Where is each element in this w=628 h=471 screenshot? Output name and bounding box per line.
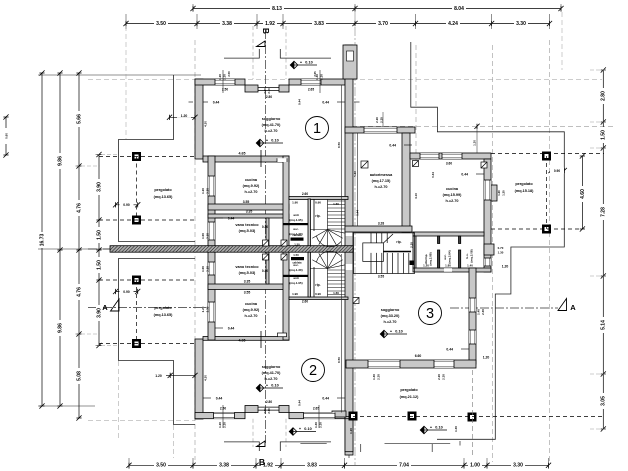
svg-text:0.44: 0.44	[228, 327, 235, 331]
svg-text:3.50: 3.50	[156, 463, 166, 469]
svg-text:1.00: 1.00	[201, 266, 205, 272]
svg-text:1.00: 1.00	[470, 463, 480, 469]
window: unit1 top w1	[215, 79, 235, 85]
grid vertical x549.6	[549, 40, 551, 462]
opening: cucina1 door	[277, 158, 287, 162]
wall: unit1 left outer	[195, 79, 203, 159]
pillar mark autorimessa	[361, 161, 368, 168]
svg-text:0.44: 0.44	[461, 173, 468, 177]
svg-text:3.28: 3.28	[378, 222, 384, 226]
svg-text:2.60: 2.60	[302, 300, 308, 304]
svg-text:1.20: 1.20	[497, 190, 501, 196]
svg-text:(mq.13.65): (mq.13.65)	[154, 195, 174, 199]
svg-text:8.13: 8.13	[272, 6, 282, 12]
svg-text:h.=2.70: h.=2.70	[265, 129, 278, 133]
pillar marks vano2	[263, 254, 269, 260]
window: soggiorno3 right w2	[469, 330, 476, 344]
svg-text:1.20: 1.20	[502, 265, 509, 269]
svg-text:3.55: 3.55	[243, 200, 250, 204]
extension lines top ticks	[192, 4, 194, 12]
svg-text:w.c.: w.c.	[443, 254, 447, 261]
door threshold unit2 bottom	[258, 406, 279, 408]
wall: vano1 partition x266	[266, 218, 269, 252]
section marker B bottom	[257, 441, 266, 447]
svg-text:3.35: 3.35	[244, 280, 251, 284]
window: cucina2 left	[208, 302, 215, 322]
svg-text:1.60: 1.60	[333, 202, 339, 206]
small dim 0.44 bottom-right	[337, 397, 345, 399]
wall: autorimessa top	[345, 127, 415, 133]
svg-text:0.10: 0.10	[271, 384, 278, 388]
wall: stair top upper	[289, 197, 348, 200]
centre spine dash-dot y250	[88, 248, 211, 250]
svg-text:0.44: 0.44	[298, 400, 302, 406]
rip closet wall upper	[313, 199, 315, 231]
svg-text:0.44: 0.44	[216, 397, 223, 401]
svg-text:0.30: 0.30	[262, 269, 268, 273]
svg-text:(mq.1.95): (mq.1.95)	[289, 281, 302, 285]
rotated dim 1.20 cucina3	[476, 126, 478, 153]
dim row top 2	[126, 23, 550, 25]
canopy outline top-left	[119, 75, 196, 242]
wall: bath partition 2	[459, 236, 461, 244]
svg-text:1.50: 1.50	[96, 260, 102, 270]
svg-text:1.92: 1.92	[265, 21, 275, 27]
svg-text:(mq.2.99): (mq.2.99)	[429, 252, 433, 265]
recess edge dashed x253 top	[252, 26, 254, 79]
dim col right pergola 4.60	[581, 156, 583, 229]
svg-text:B: B	[259, 457, 265, 467]
svg-text:(mq.9.92): (mq.9.92)	[243, 184, 260, 188]
svg-text:w.c.: w.c.	[292, 227, 299, 231]
svg-text:cucina: cucina	[245, 302, 258, 306]
wall: anti partition upper	[283, 223, 309, 225]
wall: unit1 top band left	[195, 79, 245, 85]
svg-text:h.=2.70: h.=2.70	[446, 199, 459, 203]
rotated dim garage door	[382, 112, 384, 127]
wall stub bottom left of pergolato21	[332, 411, 346, 417]
svg-text:h.=2.70: h.=2.70	[384, 320, 397, 324]
small dim 0.44 vano1	[215, 217, 223, 219]
dim col left 3.90	[98, 155, 100, 346]
svg-text:5.38: 5.38	[353, 171, 357, 177]
wall: cucina1 bottom	[208, 204, 289, 210]
svg-text:0.44: 0.44	[213, 101, 220, 105]
svg-text:rip.: rip.	[396, 240, 401, 244]
svg-text:4.30: 4.30	[204, 375, 208, 381]
svg-text:1.90: 1.90	[292, 201, 298, 205]
svg-text:5.08: 5.08	[76, 371, 82, 381]
small dim 0.44 top-right	[337, 101, 345, 103]
dim col right main	[602, 70, 604, 429]
wall: soggiorno3 bottom	[346, 360, 476, 368]
svg-text:caldaia: caldaia	[292, 233, 302, 237]
svg-text:2.10: 2.10	[206, 266, 210, 272]
wall: unit1 top band right	[289, 79, 345, 85]
window: unit2 bottom w1	[214, 413, 235, 419]
svg-text:(mq.3.08): (mq.3.08)	[470, 249, 474, 262]
svg-text:(mq.15.18): (mq.15.18)	[515, 189, 535, 193]
svg-text:3.05: 3.05	[601, 396, 607, 406]
small dim 1.20 top-left	[170, 116, 196, 118]
elevation marker soggiorno3	[380, 330, 388, 338]
svg-text:1.40: 1.40	[477, 309, 481, 315]
svg-text:4.24: 4.24	[448, 21, 458, 27]
wall: cucina2/vano2 divider	[208, 284, 289, 290]
chimney on party wall top	[343, 45, 357, 79]
svg-text:3.90: 3.90	[96, 182, 102, 192]
svg-text:2.80: 2.80	[266, 400, 272, 404]
svg-text:(mq.1.30): (mq.1.30)	[289, 268, 302, 272]
extension lines bottom ticks	[128, 458, 130, 469]
svg-text:3.70: 3.70	[378, 21, 388, 27]
wall: bath block bottom	[413, 268, 491, 272]
grid horizontal y79.5	[88, 79, 602, 81]
extension lines right	[590, 69, 606, 71]
window: unit1 top w2	[301, 79, 321, 85]
svg-text:h.=2.70: h.=2.70	[245, 190, 258, 194]
svg-text:9.86: 9.86	[57, 323, 63, 333]
small dim 0.44 cucina2	[215, 327, 223, 329]
svg-text:1.20: 1.20	[473, 140, 477, 146]
grid horizontal y126.3 right	[352, 125, 614, 127]
recess edge dashed x286 top	[285, 26, 287, 79]
svg-text:3.38: 3.38	[219, 463, 229, 469]
dim pergola right 0.90	[551, 170, 564, 172]
svg-text:2.30: 2.30	[206, 306, 210, 312]
svg-text:1.20: 1.20	[218, 422, 222, 428]
svg-text:(mq.15.99): (mq.15.99)	[443, 193, 463, 197]
stair pillar unit3	[410, 261, 415, 266]
grid horizontal y420.5 left	[88, 420, 195, 422]
svg-text:vano tecnico: vano tecnico	[235, 223, 259, 227]
svg-text:2.65: 2.65	[313, 407, 319, 411]
svg-text:1.80: 1.80	[445, 264, 451, 268]
pergola dashes left lower	[136, 280, 138, 344]
svg-text:2.60: 2.60	[302, 192, 308, 196]
svg-text:(mq.21.12): (mq.21.12)	[400, 395, 420, 399]
wall: cucina1/vano1 left	[208, 156, 215, 252]
elevation marker soggiorno1	[256, 139, 264, 147]
svg-text:1.40: 1.40	[314, 422, 318, 428]
wall: anti partition lower	[283, 275, 309, 277]
svg-text:2.10: 2.10	[267, 408, 271, 414]
svg-text:0.44: 0.44	[431, 172, 435, 178]
wall: service column right upper	[283, 156, 289, 252]
dim col left 16.73	[41, 73, 43, 406]
party wall centreline dash-dot	[348, 45, 350, 458]
svg-text:1.30: 1.30	[454, 426, 458, 432]
svg-text:A: A	[102, 303, 108, 312]
svg-text:4.65: 4.65	[239, 339, 246, 343]
svg-text:2.30: 2.30	[377, 374, 381, 380]
svg-text:1.50: 1.50	[294, 243, 300, 247]
svg-text:1.40: 1.40	[372, 374, 376, 380]
opening: cucina2 door	[278, 333, 287, 337]
dim col left 5.66	[78, 73, 80, 418]
wall: unit2 bottom recess block right	[279, 406, 289, 413]
svg-text:3.55: 3.55	[244, 291, 251, 295]
window: soggiorno3 right w1	[469, 298, 476, 312]
wall: unit1 top recess block right	[279, 85, 289, 92]
svg-text:3.55: 3.55	[378, 275, 384, 279]
small dim 0.44 cucina3 right	[476, 173, 484, 175]
garage door: autorimessa	[364, 127, 397, 133]
small dim 0.44 autorimessa	[404, 144, 412, 146]
svg-text:pergolato: pergolato	[154, 306, 172, 310]
elevation marker pergolato21	[420, 426, 428, 434]
chimney bump cucina3 right	[491, 185, 497, 201]
small dim 0.44 bottom-left	[203, 397, 211, 399]
canopy outline bottom-left	[119, 259, 196, 425]
svg-text:1.20: 1.20	[218, 74, 222, 80]
svg-text:0.10: 0.10	[395, 330, 402, 334]
rotated dim 5.38	[356, 133, 358, 226]
pergola dashes left upper	[136, 157, 138, 221]
svg-text:1.20: 1.20	[201, 188, 205, 194]
svg-text:4.76: 4.76	[76, 287, 82, 297]
svg-text:1: 1	[313, 121, 321, 137]
svg-text:anti: anti	[293, 276, 299, 280]
recess edge dashed x286 bottom	[285, 419, 287, 447]
svg-text:0.90: 0.90	[315, 292, 321, 296]
svg-text:4.65: 4.65	[239, 152, 246, 156]
entry canopy top	[224, 49, 331, 58]
svg-text:1.50: 1.50	[601, 130, 607, 140]
svg-text:1.20: 1.20	[423, 264, 429, 268]
window: vano1 left	[208, 222, 215, 240]
svg-text:A: A	[570, 303, 576, 312]
path lines bottom	[300, 443, 326, 445]
wall: cucina2/vano2 left	[208, 248, 215, 340]
svg-text:3.50: 3.50	[156, 21, 166, 27]
dim col left 0.60	[5, 117, 7, 155]
grid vertical x355 dash-dot	[354, 12, 356, 465]
wall: unit1 top recess block left	[245, 85, 258, 92]
pergola posts left upper	[132, 152, 141, 161]
svg-text:3: 3	[426, 306, 434, 322]
window: cucina3 right	[484, 180, 491, 200]
window mark party wall	[353, 298, 359, 304]
elevation marker bottom centre	[289, 428, 297, 436]
svg-text:0.44: 0.44	[389, 144, 396, 148]
svg-text:2.20: 2.20	[437, 374, 441, 380]
stairs unit1	[310, 200, 345, 248]
small dim 1.20 bottom-left	[166, 374, 195, 376]
window: vano2 left	[208, 262, 215, 275]
svg-text:7.04: 7.04	[399, 463, 409, 469]
chimney right	[484, 244, 494, 255]
svg-text:4.10: 4.10	[414, 193, 418, 199]
svg-text:h.=2.70: h.=2.70	[265, 377, 278, 381]
svg-text:vano tecnico: vano tecnico	[235, 265, 259, 269]
wall: soggiorno3 right	[469, 268, 476, 364]
svg-text:(mq.5.03): (mq.5.03)	[239, 229, 256, 233]
svg-text:(mq.13.65): (mq.13.65)	[154, 313, 174, 317]
svg-text:anti: anti	[293, 213, 299, 217]
unit circle 2	[302, 359, 325, 382]
section marker A right	[558, 299, 567, 311]
recess edge dashed x253 bottom	[252, 419, 254, 447]
small dim 0.90 pergola left upper	[116, 204, 138, 206]
wall: corridor wall lower	[308, 248, 311, 297]
svg-text:2.30: 2.30	[206, 188, 210, 194]
caldaia appliance lower	[291, 257, 304, 260]
wall: corridor wall upper	[308, 199, 311, 252]
dashed x118.5 below pergola	[118, 361, 120, 440]
window: cucina1 left	[208, 176, 215, 196]
rotated dim 6.50 party wall bottom	[341, 254, 343, 413]
svg-text:3.83: 3.83	[314, 21, 324, 27]
svg-text:soggiorno: soggiorno	[262, 365, 281, 369]
stairs unit2	[310, 251, 345, 297]
svg-text:2.20: 2.20	[410, 242, 414, 248]
svg-text:cucina: cucina	[245, 178, 258, 182]
svg-text:9.86: 9.86	[57, 156, 63, 166]
svg-text:2.30: 2.30	[379, 117, 383, 123]
svg-text:B: B	[261, 28, 271, 34]
wall: cucina2 bottom	[203, 337, 289, 341]
door threshold unit1 top	[258, 87, 279, 89]
svg-text:0.90: 0.90	[123, 290, 130, 294]
dim row top 1	[193, 8, 561, 10]
stairs unit3	[354, 233, 415, 274]
small dim 0.90 pergola left lower	[116, 291, 138, 293]
svg-text:16.73: 16.73	[39, 234, 45, 247]
rotated dim 6.50 party wall top	[341, 85, 343, 246]
wall: autorimessa right	[402, 133, 410, 232]
pillar marks cucina3	[413, 161, 419, 167]
svg-text:0.90: 0.90	[315, 201, 321, 205]
svg-text:4.76: 4.76	[76, 203, 82, 213]
dim col left 9.86	[59, 73, 61, 406]
door gap bath bottom	[444, 268, 452, 272]
svg-text:1.50: 1.50	[293, 253, 299, 257]
svg-text:0.10: 0.10	[271, 139, 278, 143]
svg-text:2.65: 2.65	[313, 71, 317, 77]
wall: cucina3 right	[484, 159, 491, 272]
svg-text:2.80: 2.80	[601, 91, 607, 101]
extension line top-left y75	[38, 74, 201, 76]
svg-text:2.10: 2.10	[375, 117, 379, 123]
svg-text:1.50: 1.50	[96, 230, 102, 240]
pergola dashes right	[491, 153, 604, 155]
pergola posts left lower	[132, 276, 141, 285]
svg-text:2.80: 2.80	[263, 408, 267, 414]
svg-text:7.28: 7.28	[601, 207, 607, 217]
svg-text:5.14: 5.14	[601, 320, 607, 330]
wall: party wall lower extension	[345, 419, 353, 452]
grid vertical x416	[415, 45, 417, 160]
svg-text:3.38: 3.38	[222, 21, 232, 27]
svg-text:0.44: 0.44	[446, 348, 453, 352]
small dim 0.44 top-left	[189, 101, 194, 103]
svg-text:soggiorno: soggiorno	[381, 308, 400, 312]
svg-text:0.10: 0.10	[305, 61, 312, 65]
window: soggiorno3 bottom w2	[434, 360, 454, 368]
svg-text:2.65: 2.65	[308, 87, 314, 91]
party wall door gap upper	[346, 230, 353, 236]
svg-text:3.35: 3.35	[246, 210, 253, 214]
wall: unit2 bottom recess block left	[245, 406, 258, 413]
rip closet wall lower	[313, 267, 315, 297]
wall: party wall central	[345, 45, 353, 455]
unit circle 3	[419, 302, 442, 325]
svg-text:3.83: 3.83	[307, 463, 317, 469]
svg-text:1.30: 1.30	[498, 251, 504, 255]
section line B-B vertical dash-dot	[265, 30, 267, 443]
svg-text:2.30: 2.30	[442, 374, 446, 380]
wall: autorimessa bottom	[345, 226, 412, 232]
svg-text:(mq.17.15): (mq.17.15)	[372, 179, 392, 183]
caldaia appliance upper	[291, 238, 304, 241]
svg-text:0.60: 0.60	[4, 133, 8, 139]
svg-text:1.00: 1.00	[201, 233, 205, 239]
svg-text:2.10: 2.10	[267, 88, 271, 94]
svg-text:cucina: cucina	[446, 187, 459, 191]
section marker B top	[257, 41, 266, 47]
svg-text:soggiorno: soggiorno	[262, 117, 281, 121]
svg-text:0.44: 0.44	[298, 99, 302, 105]
svg-text:(mq.41.70): (mq.41.70)	[262, 123, 282, 127]
wall: bath block top	[413, 232, 484, 236]
window: cucina3 top a	[420, 153, 439, 159]
svg-text:4.30: 4.30	[204, 121, 208, 127]
wall: stair bottom lower	[289, 297, 348, 300]
svg-text:0.90: 0.90	[123, 203, 130, 207]
svg-text:1.20: 1.20	[155, 374, 162, 378]
svg-text:5.66: 5.66	[76, 114, 82, 124]
entry canopy bottom	[224, 442, 331, 451]
svg-text:rip.: rip.	[315, 283, 320, 287]
entry step lines bottom	[360, 444, 362, 452]
svg-text:2.50: 2.50	[227, 71, 231, 77]
svg-text:0.10: 0.10	[435, 426, 442, 430]
elevation marker soggiorno2	[256, 384, 264, 392]
window: soggiorno3 bottom w1	[368, 360, 400, 368]
svg-text:b.s.: b.s.	[465, 253, 469, 258]
wall: bath left	[413, 236, 416, 268]
wall: unit2 bottom band right	[289, 413, 345, 419]
grid vertical x195	[194, 40, 196, 460]
hatched spine wall	[110, 246, 353, 253]
elevation marker top centre	[290, 61, 298, 69]
svg-text:(mq.33.20): (mq.33.20)	[381, 314, 401, 318]
dim row bottom	[129, 464, 549, 466]
svg-text:(mq.9.92): (mq.9.92)	[243, 308, 260, 312]
svg-text:0.30: 0.30	[262, 225, 268, 229]
svg-text:3.30: 3.30	[513, 463, 523, 469]
svg-text:6.50: 6.50	[337, 357, 341, 363]
svg-text:2.30: 2.30	[481, 309, 485, 315]
svg-text:0.90: 0.90	[554, 169, 560, 173]
svg-text:2.80: 2.80	[263, 88, 267, 94]
pergola post3 vertical dashed	[472, 370, 474, 455]
svg-text:3.30: 3.30	[516, 21, 526, 27]
wall: vano1 top	[208, 214, 289, 218]
party wall door gap lower	[346, 264, 353, 270]
svg-text:6.60: 6.60	[415, 354, 422, 358]
svg-text:2.80: 2.80	[266, 95, 272, 99]
svg-text:0.44: 0.44	[356, 210, 360, 216]
wall: cucina3 top	[410, 153, 491, 159]
svg-text:0.44: 0.44	[322, 397, 329, 401]
section line A-A right	[450, 307, 558, 309]
pillar marks vano1	[263, 240, 269, 246]
svg-text:pergolato: pergolato	[154, 188, 172, 192]
wall: vano2 partition x266	[266, 248, 269, 284]
svg-text:2: 2	[309, 363, 317, 379]
